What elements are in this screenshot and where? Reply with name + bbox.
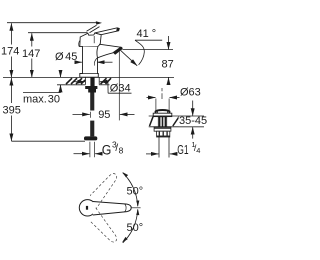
drain tail pipe	[158, 137, 160, 158]
angle arc top	[123, 173, 138, 206]
G38 left arrow	[74, 153, 90, 155]
svg-text:Ø63: Ø63	[180, 87, 201, 99]
counter hatch right of faucet	[101, 78, 112, 84]
right counter hatch	[150, 117, 180, 126]
solid lever bar	[93, 202, 131, 216]
dimension 95 right arrow	[120, 113, 135, 115]
base step line	[80, 73, 99, 75]
spout outlet vertical extension to 95	[118, 50, 120, 121]
counter hatch left of faucet	[66, 78, 85, 84]
svg-text:147: 147	[22, 48, 40, 60]
svg-text:G: G	[102, 142, 112, 157]
faucet body	[80, 46, 99, 77]
svg-text:50°: 50°	[127, 186, 144, 198]
dimension Ø45 left arrow	[75, 61, 82, 63]
svg-text:174: 174	[1, 46, 19, 58]
dimension 147 extension line	[28, 32, 88, 34]
dimension 174 vertical line	[10, 23, 12, 44]
aerator dark face	[113, 47, 123, 55]
drain flange	[153, 113, 172, 116]
Ø34 leader bend	[107, 82, 109, 94]
dimension 87 upper arrow	[168, 36, 170, 50]
lever front curl	[79, 41, 80, 47]
G38 right arrow	[95, 153, 102, 155]
svg-text:4: 4	[196, 146, 200, 155]
dimension max30 upper arrow	[60, 71, 62, 77]
counter bottom line right of faucet	[99, 84, 109, 86]
centerline	[131, 207, 140, 209]
svg-text:87: 87	[162, 59, 174, 71]
dimension G114 right arrow	[170, 153, 177, 155]
41 degree text underline	[135, 39, 162, 41]
dimension 147 vertical line	[31, 33, 33, 46]
drain centerline dash	[161, 88, 163, 91]
faucet lever head	[80, 33, 101, 47]
knob inner tick	[86, 206, 88, 210]
dimension Ø34 right arrow	[100, 81, 108, 83]
hose end connector	[84, 136, 97, 140]
dimension 395 vertical line	[10, 78, 12, 103]
svg-text:95: 95	[98, 109, 110, 121]
drain lower block	[157, 131, 170, 137]
dimension 174 arc arrowhead at lever tip	[96, 21, 102, 25]
svg-text:Ø34: Ø34	[110, 82, 131, 94]
spout height extension line	[123, 49, 174, 51]
water stream 41 degree arrow	[121, 51, 137, 66]
svg-text:8: 8	[119, 146, 124, 156]
dimension 35-45 lower arrow	[192, 127, 194, 139]
dimension Ø45 right arrow	[97, 61, 113, 63]
svg-text:max. 30: max. 30	[23, 93, 60, 105]
counter top line	[3, 76, 174, 78]
hose nut block	[88, 89, 96, 93]
drain cap dome	[156, 110, 170, 113]
mounting stud thin line	[85, 78, 87, 85]
lever grip	[95, 28, 120, 35]
drain threaded neck	[158, 117, 166, 127]
flexible hose lower	[90, 121, 94, 137]
bottom view pivot knob	[79, 200, 95, 216]
dimension 35-45 upper arrow	[192, 101, 194, 116]
lever raised dashes	[87, 25, 97, 31]
dimension Ø63 left arrow	[147, 97, 156, 99]
text 35-45	[179, 117, 207, 126]
dimension max30 leader	[23, 92, 61, 94]
flexible hose upper	[90, 93, 94, 111]
mounting nut	[85, 86, 97, 89]
drain cap extension lines	[155, 99, 157, 112]
dimension 395 bottom extension line	[11, 140, 85, 142]
spout underside	[98, 53, 113, 58]
svg-text:50°: 50°	[127, 222, 144, 234]
right counter band top line	[149, 115, 204, 117]
svg-text:395: 395	[3, 104, 21, 116]
svg-text:41°: 41°	[137, 28, 157, 40]
dimension 95 left tick	[89, 112, 91, 118]
mounting shank dark rod	[90, 77, 94, 86]
lever tip dark	[116, 28, 119, 31]
lever bar end inner line	[125, 204, 127, 212]
hole right edge	[98, 78, 100, 85]
svg-text:Ø45: Ø45	[55, 51, 77, 63]
dimension 87 lower arrow	[168, 77, 170, 84]
svg-text:G1: G1	[177, 143, 188, 157]
G38 extension ticks	[89, 142, 91, 157]
counter bottom line left detail	[57, 84, 85, 86]
dimension Ø34 left arrow	[73, 81, 85, 83]
lever inner lines	[93, 36, 95, 43]
drain lock nut	[154, 127, 171, 131]
right counter band bottom line	[149, 126, 204, 128]
body crease	[94, 58, 97, 66]
dimension 95 left arrow	[73, 113, 90, 115]
spout top edge	[99, 44, 122, 47]
Ø34 underline	[108, 92, 131, 94]
dimension G114 left arrow	[146, 153, 159, 155]
dimension Ø63 right arrow	[170, 97, 180, 99]
svg-text:35-45: 35-45	[179, 115, 207, 127]
41 degree leader arc	[135, 40, 144, 65]
dimension 174 extension line top	[7, 22, 97, 24]
dashed lever up 50	[85, 170, 121, 246]
angle arc bottom	[123, 209, 138, 242]
